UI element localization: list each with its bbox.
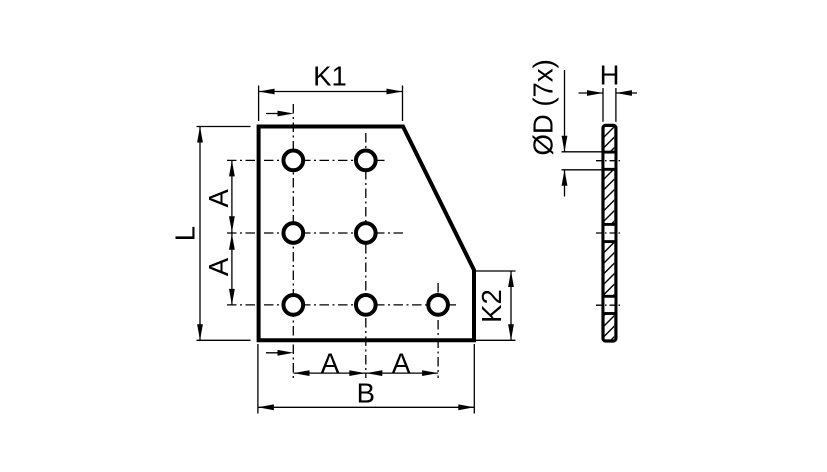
hole r2c1: [283, 223, 303, 243]
centerline row 3: [227, 304, 456, 306]
hatching: [600, 100, 620, 362]
centerline row 2: [227, 232, 404, 234]
H dimension: [579, 92, 604, 94]
svg-text:A: A: [203, 188, 234, 207]
OD dimension: [562, 151, 603, 153]
dimension thin lines: [197, 86, 516, 414]
svg-text:H: H: [600, 60, 620, 91]
side centerlines: [562, 70, 638, 305]
svg-text:B: B: [357, 378, 375, 409]
section hole 1: [603, 152, 616, 169]
hole r1c1: [283, 151, 303, 171]
hole r3c2: [356, 295, 376, 315]
centerline column 3: [437, 283, 439, 378]
svg-text:L: L: [170, 226, 201, 241]
K1 dimension line: [259, 91, 403, 93]
hole r2c2: [356, 223, 376, 243]
svg-text:K1: K1: [313, 61, 347, 92]
side plate outline: [603, 125, 616, 341]
centerline row 1: [227, 159, 385, 161]
centerline column 1: [292, 104, 294, 378]
hole r3c3: [428, 295, 448, 315]
L dimension line: [199, 127, 201, 341]
A left dimension line: [231, 160, 233, 305]
hole r1c2: [356, 151, 376, 171]
front view: 90-degree joining plate outline: [259, 127, 474, 341]
B dimension line: [258, 406, 474, 408]
centerline column 2: [365, 133, 367, 378]
small reference arrow bottom: [266, 352, 290, 354]
K2 dimension line: [476, 270, 516, 272]
hole r3c1: [283, 295, 303, 315]
small reference arrow top: [266, 113, 290, 115]
section hole 3: [603, 296, 616, 313]
svg-text:A: A: [392, 347, 411, 378]
A bottom dimension line: [294, 372, 439, 374]
svg-text:K2: K2: [476, 289, 507, 323]
section hole 2: [603, 224, 616, 241]
svg-text:ØD (7x): ØD (7x): [528, 59, 559, 155]
svg-text:A: A: [321, 347, 340, 378]
svg-text:A: A: [203, 257, 234, 276]
arrowheads front view: [259, 89, 275, 95]
